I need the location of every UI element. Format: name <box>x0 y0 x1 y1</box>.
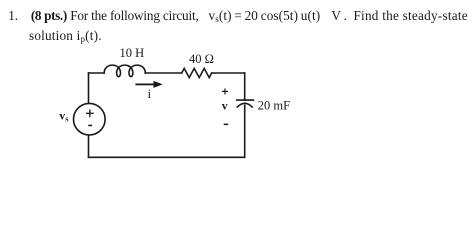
svg-text:40 Ω: 40 Ω <box>189 52 214 66</box>
svg-text:vs: vs <box>59 109 69 124</box>
capacitor C top plate <box>237 99 254 101</box>
svg-text:v: v <box>222 99 228 113</box>
voltage source Vs circle <box>74 103 106 135</box>
capacitor plus label <box>223 89 228 94</box>
wire right lower <box>244 105 246 157</box>
wire left lower <box>88 135 90 157</box>
resistor R 40 ohm <box>182 68 212 77</box>
wire top-middle segment <box>145 72 182 74</box>
minus sign in source <box>88 125 92 127</box>
inductor L 10 H <box>104 65 145 76</box>
current arrow i <box>135 81 162 88</box>
svg-text:i: i <box>148 86 152 101</box>
plus sign in source <box>87 110 94 117</box>
problem statement line 2 <box>29 28 102 45</box>
capacitor minus label <box>224 124 229 126</box>
svg-text:10 H: 10 H <box>120 46 145 60</box>
svg-text:20 mF: 20 mF <box>258 99 290 113</box>
wire left upper <box>88 73 90 103</box>
wire right upper (to capacitor) <box>244 73 246 100</box>
wire top-left segment <box>89 72 105 74</box>
problem statement line 1 <box>8 8 468 25</box>
bottom wire <box>89 156 245 158</box>
capacitor C curved plate <box>237 103 252 107</box>
wire top-right segment <box>212 72 245 74</box>
